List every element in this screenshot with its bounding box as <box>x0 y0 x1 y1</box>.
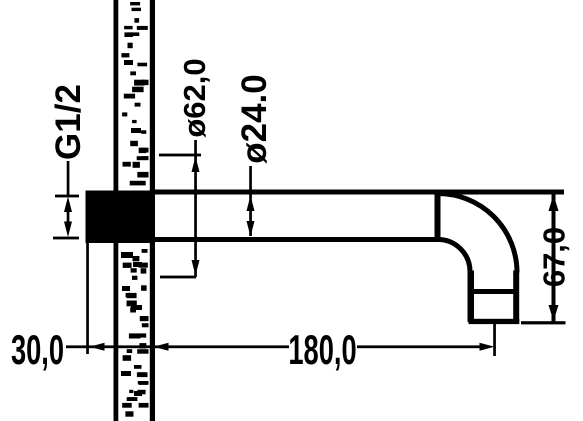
svg-text:ø62,0: ø62,0 <box>177 58 212 137</box>
67 up arrow <box>549 195 559 212</box>
dia 24 dimension line <box>249 166 252 236</box>
G1/2 top extension line <box>55 195 79 198</box>
dia 24 up arrow <box>247 196 255 212</box>
nozzle top joint line <box>471 289 516 294</box>
elbow inner arc <box>438 240 470 272</box>
tube bottom line <box>150 237 441 242</box>
G1/2 arrow connecting line <box>67 208 70 226</box>
30/180 dimension line left <box>66 345 289 348</box>
30 extension line <box>86 242 89 354</box>
67 dimension line upper <box>552 194 556 322</box>
dia 62 dimension line <box>194 140 197 277</box>
svg-text:30,0: 30,0 <box>11 326 64 373</box>
svg-text:180,0: 180,0 <box>288 326 356 373</box>
180 extension leader <box>493 324 496 356</box>
G1/2 bottom extension line <box>53 237 79 240</box>
nozzle left edge <box>468 271 475 322</box>
dia 24 down arrow <box>247 221 255 237</box>
elbow/nozzle outer right edge <box>513 271 519 322</box>
svg-text:G1/2: G1/2 <box>49 84 88 160</box>
180 left arrow <box>154 343 169 351</box>
wall left line <box>114 0 119 421</box>
dia 62 bottom extension line <box>160 276 196 279</box>
dia 62 up arrow <box>192 157 200 173</box>
180 dimension line right <box>357 345 483 348</box>
dia 62 down arrow <box>192 260 200 276</box>
G1/2 leader line <box>67 161 70 196</box>
nozzle bottom line <box>469 319 520 324</box>
svg-text:ø24.0: ø24.0 <box>235 74 274 164</box>
180 right arrow <box>480 343 495 351</box>
connector (black body in wall) <box>86 191 151 244</box>
G1/2 down arrow <box>64 222 72 238</box>
tube top line merging into 67 top extension <box>150 190 564 195</box>
wall hatch speckles <box>121 2 149 417</box>
30 left arrow <box>90 343 105 351</box>
67 bottom extension line <box>521 321 566 324</box>
67 down arrow <box>549 305 559 321</box>
dia 62 top extension line <box>159 154 201 157</box>
G1/2 up arrow <box>64 197 72 213</box>
elbow outer arc <box>438 194 517 273</box>
tube/elbow joint line <box>435 190 441 243</box>
wall right line <box>150 0 155 421</box>
